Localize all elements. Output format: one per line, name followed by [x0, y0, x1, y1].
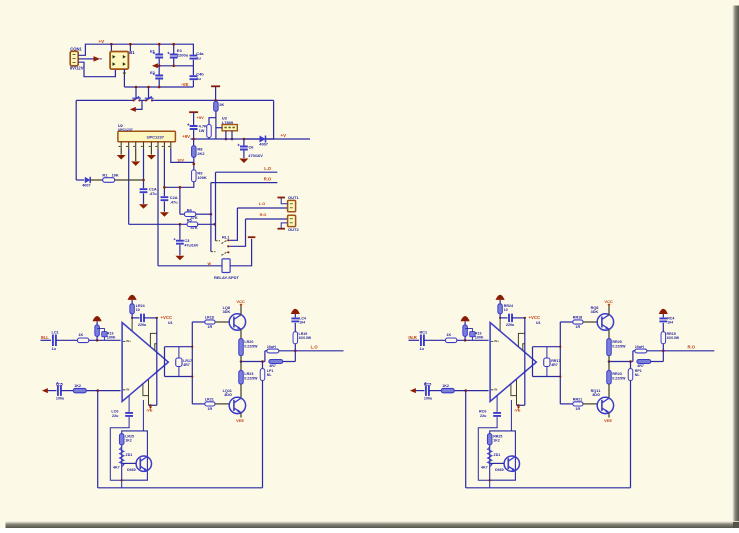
- connector OUT2: [288, 215, 296, 226]
- bias network box: [490, 431, 516, 480]
- capacitor RC2 bias small: [470, 332, 475, 337]
- svg-text:LC5: LC5: [56, 382, 63, 386]
- capacitor E1 column: [158, 44, 160, 53]
- wire R.O drop to relay: [210, 183, 212, 252]
- svg-text:U1: U1: [168, 321, 173, 325]
- svg-text:R1: R1: [102, 172, 108, 177]
- wire R5 to R.O drop: [198, 223, 215, 225]
- svg-text:104: 104: [667, 320, 673, 324]
- wire switch feed left vertical: [135, 87, 137, 98]
- bias transistor base wire: [490, 462, 504, 464]
- capacitor C4a column: [192, 44, 194, 54]
- wire bus corner down x=273.6: [274, 100, 310, 139]
- ground below C2A: [160, 212, 169, 217]
- svg-text:ZD1: ZD1: [126, 453, 133, 457]
- power dome above bias resistor: [464, 321, 466, 325]
- wire main rail y=100 left run: [76, 99, 128, 101]
- resistor RR17 bracket 4R7: [546, 347, 548, 358]
- svg-text:VCC: VCC: [236, 299, 245, 304]
- resistor R7 4K7 parallel: [209, 118, 216, 125]
- svg-text:D669: D669: [127, 468, 136, 472]
- svg-text:R5: R5: [187, 218, 193, 223]
- wire emitter resistor to output node: [240, 356, 242, 362]
- capacitor C5 column: [190, 126, 198, 129]
- resistor RR13 bias 100K: [463, 325, 468, 336]
- wire R6 bottom to +9V rail: [215, 111, 217, 139]
- capacitor C4b column: [192, 66, 194, 75]
- resistor LR12 1K2: [73, 388, 86, 392]
- svg-text:0.22/5W: 0.22/5W: [244, 376, 258, 380]
- feedback bottom run: [97, 391, 99, 488]
- ground pin3: [135, 149, 137, 161]
- op-amp aux pin jog 2: [523, 344, 525, 351]
- resistor LR13 bias 100K: [95, 325, 100, 336]
- svg-text:UPC1237: UPC1237: [118, 128, 133, 132]
- connector CON1 (power input): [70, 51, 78, 66]
- resistor LR19 10/0.5W column: [293, 332, 298, 344]
- svg-text:100K: 100K: [197, 175, 206, 180]
- capacitor RC7 supply bypass: [500, 317, 507, 319]
- wire bridge + output up to bus: [129, 44, 131, 51]
- junction R6 top: [214, 99, 217, 102]
- resistor R4 47K: [180, 213, 185, 215]
- supply rail vertical to V- node: [156, 318, 158, 405]
- preset RRP1 zigzag: [488, 447, 492, 467]
- svg-text:100u: 100u: [56, 396, 65, 400]
- relay coil RL1: [158, 265, 222, 267]
- inductor LL1 parallel branch: [264, 351, 266, 362]
- svg-text:IN.L: IN.L: [41, 335, 49, 340]
- wire U3 pins to +9V rail: [225, 131, 227, 139]
- wire R4 to L.O drop: [196, 213, 211, 215]
- V- node wire: [149, 404, 157, 406]
- svg-text:VEE: VEE: [236, 418, 244, 423]
- op-amp aux pin jog 2: [155, 344, 157, 351]
- svg-text:OUT2: OUT2: [288, 227, 299, 232]
- svg-text:220u: 220u: [138, 323, 147, 327]
- resistor R5 47K: [129, 223, 187, 225]
- net stub output L.O: [295, 350, 343, 352]
- capacitor LC2 bias small: [102, 332, 107, 337]
- svg-text:-VE: -VE: [181, 82, 189, 87]
- resistor R1 10K: [103, 178, 115, 183]
- drop shadow bottom edge: [6, 521, 739, 528]
- svg-text:RC1: RC1: [420, 331, 428, 335]
- resistor RR20 emitter 0.22/5W: [608, 329, 610, 339]
- svg-text:IN+: IN+: [494, 339, 499, 343]
- svg-text:RR20: RR20: [612, 340, 621, 344]
- wire left drop to preamp feed: [75, 100, 77, 180]
- net label -VE: [517, 407, 520, 410]
- svg-text:R.O: R.O: [260, 213, 267, 217]
- svg-text:0.22/5W: 0.22/5W: [244, 344, 258, 348]
- svg-text:RELAY-SPDT: RELAY-SPDT: [214, 275, 240, 280]
- resistor LR18 top base 1R: [192, 321, 205, 323]
- svg-text:1K2: 1K2: [125, 439, 132, 443]
- wire switch feed right vertical: [148, 87, 150, 98]
- svg-text:1R: 1R: [207, 325, 212, 329]
- svg-text:U1: U1: [536, 321, 541, 325]
- wire pin4 drop to C1A: [143, 149, 145, 188]
- wire to top transistor base: [583, 321, 597, 323]
- svg-text:-VE: -VE: [146, 408, 153, 413]
- resistor RR12 1K2: [441, 388, 454, 392]
- wire to bottom transistor base: [583, 403, 597, 405]
- regulator U3 78L09: [222, 125, 237, 131]
- switch SW2: [140, 99, 147, 101]
- feedback bottom run: [465, 391, 467, 488]
- resistor LR26 parallel branch: [269, 360, 283, 364]
- IC pins: [120, 142, 122, 149]
- svg-text:10: 10: [136, 308, 140, 312]
- drop shadow right edge: [732, 6, 739, 529]
- svg-text:3DG: 3DG: [592, 393, 600, 397]
- wire relay NO1 to OUT1: [230, 208, 238, 240]
- svg-text:10V: 10V: [177, 159, 184, 163]
- ground below C3: [175, 256, 184, 260]
- diode D2 line to +V stub: [244, 138, 274, 140]
- svg-text:.47u: .47u: [149, 191, 157, 196]
- wire +9V rail: [191, 138, 274, 140]
- capacitor E3 column: [173, 44, 175, 53]
- svg-text:0.22/5W: 0.22/5W: [612, 376, 626, 380]
- bridge rectifier B1: [110, 52, 128, 70]
- net label -VE: [149, 407, 152, 410]
- svg-text:100K: 100K: [107, 336, 116, 340]
- power dome above zobel: [659, 309, 668, 314]
- op-amp LU1 triangle: [122, 323, 168, 402]
- inductor RL1 parallel branch: [632, 351, 634, 362]
- svg-text:1R: 1R: [575, 407, 580, 411]
- svg-text:RL1: RL1: [222, 234, 230, 239]
- svg-text:4K7: 4K7: [481, 466, 488, 470]
- bias network box: [122, 431, 148, 480]
- svg-text:4R7: 4R7: [637, 364, 644, 368]
- op-amp lower pin drop 1: [143, 384, 149, 395]
- svg-text:3DK: 3DK: [223, 310, 231, 314]
- svg-text:OUT1: OUT1: [288, 195, 299, 200]
- svg-text:IN.R: IN.R: [408, 335, 416, 340]
- driver rail vertical: [191, 322, 193, 404]
- resistor LR25 in box: [119, 434, 124, 445]
- wire to IN- pin: [454, 390, 488, 392]
- resistor RR18 top base 1R: [560, 321, 573, 323]
- wire coil to power bar: [230, 239, 252, 266]
- wire R9 bottom jog to C2A node: [164, 182, 193, 188]
- resistor LR20 emitter 0.22/5W: [240, 329, 242, 339]
- V+ pin resistor column: [131, 318, 133, 331]
- svg-text:LR23: LR23: [244, 372, 253, 376]
- svg-text:1K: 1K: [78, 333, 83, 337]
- svg-text:E1: E1: [150, 49, 156, 54]
- wire bridge - output down to bottom bus: [123, 69, 125, 87]
- capacitor RC1 input 1u: [421, 335, 424, 347]
- emitter wire to VEE: [240, 413, 242, 418]
- svg-text:4R7: 4R7: [551, 363, 558, 367]
- connector OUT1: [288, 200, 296, 211]
- wire top bus +VE: [111, 43, 194, 45]
- wire to IN- pin: [86, 390, 120, 392]
- svg-text:100K: 100K: [475, 336, 484, 340]
- ground below C1A: [139, 204, 148, 209]
- wire input cap to RR11: [424, 339, 446, 341]
- net stub output R.O: [663, 350, 714, 352]
- svg-text:L.O: L.O: [264, 166, 272, 171]
- diode D1: [85, 177, 90, 183]
- V+ pin resistor column: [499, 318, 501, 331]
- bias transistor base wire: [122, 462, 136, 464]
- net stub L.O top: [216, 171, 278, 173]
- capacitor C2A: [161, 197, 169, 200]
- net stub input minus IN.R2: [410, 388, 416, 393]
- wire bottom bus -VE: [124, 86, 193, 88]
- svg-text:D669: D669: [495, 468, 504, 472]
- capacitor LC1 input 1u: [53, 335, 56, 347]
- power bar above coil: [248, 236, 256, 238]
- resistor R8 2K2: [193, 139, 195, 146]
- wire L.O drop to relay: [215, 172, 217, 241]
- wire to top transistor base: [215, 321, 229, 323]
- svg-text:L.O: L.O: [259, 202, 265, 206]
- ground arrow on mid rail: [152, 63, 158, 68]
- capacitor LC6 22u feedback: [128, 396, 130, 412]
- wire to bottom transistor base: [215, 403, 229, 405]
- junction top bus to bridge: [110, 43, 113, 46]
- svg-text:2K: 2K: [219, 102, 224, 107]
- wire input cap to LR11: [56, 339, 78, 341]
- output line to zobel: [609, 361, 633, 363]
- feedback resistor LP1: [262, 362, 264, 369]
- resistor RR23 emitter 0.22/5W: [608, 362, 610, 371]
- wire to bottom transistor collector: [608, 384, 610, 398]
- svg-text:1W: 1W: [199, 128, 205, 133]
- svg-text:10uH: 10uH: [635, 345, 644, 349]
- svg-text:+9V: +9V: [197, 115, 205, 120]
- svg-text:1u: 1u: [420, 347, 425, 351]
- svg-text:3DK: 3DK: [591, 310, 599, 314]
- output bracket left vertical: [164, 347, 166, 377]
- svg-text:1R: 1R: [575, 325, 580, 329]
- svg-text:4R7: 4R7: [269, 364, 276, 368]
- resistor LR21 bottom base 1R: [192, 403, 205, 405]
- output line to zobel: [241, 361, 265, 363]
- feedback vertical to bottom run: [630, 381, 632, 488]
- svg-text:ZD1: ZD1: [494, 453, 501, 457]
- svg-text:1R: 1R: [207, 407, 212, 411]
- svg-text:R4: R4: [187, 207, 193, 212]
- diode D2 4007: [260, 136, 266, 143]
- emitter wire to VEE: [608, 413, 610, 418]
- transistor LQ13 bias: [136, 456, 151, 471]
- transistor RQ8 top NPN: [597, 314, 613, 330]
- svg-text:NL: NL: [267, 373, 273, 377]
- capacitor C1A: [140, 189, 148, 192]
- svg-text:RR21: RR21: [573, 398, 582, 402]
- resistor RR11 1K: [446, 338, 457, 343]
- ground below C6: [239, 159, 248, 164]
- transistor RQ13 bias: [504, 456, 519, 471]
- wire pin6 drop to relay coil line: [157, 149, 159, 266]
- svg-text:IN: IN: [126, 387, 129, 391]
- svg-text:VCC: VCC: [604, 299, 613, 304]
- capacitor RC5 100u input minus: [426, 385, 429, 396]
- wire R1 to pin4 node: [115, 179, 144, 181]
- svg-text:+VCC: +VCC: [161, 315, 173, 320]
- resistor RR25 in box: [487, 434, 492, 445]
- svg-text:LR21: LR21: [205, 398, 214, 402]
- svg-text:4007: 4007: [82, 183, 90, 187]
- wire to bottom transistor collector: [240, 384, 242, 398]
- svg-text:2K2: 2K2: [197, 151, 205, 156]
- svg-text:1u: 1u: [196, 56, 201, 61]
- transistor LQ11 bottom PNP: [229, 397, 245, 413]
- resistor RR21 bottom base 1R: [560, 403, 573, 405]
- wire mid rail: [157, 65, 194, 67]
- op-amp RU1 triangle: [490, 323, 536, 402]
- wire main rail y=100 right run: [152, 99, 274, 101]
- wire pin2 long drop: [128, 149, 130, 224]
- net stub input minus IN.L2: [42, 388, 48, 393]
- svg-text:-VE: -VE: [514, 408, 521, 413]
- svg-text:10K: 10K: [112, 172, 119, 177]
- svg-text:LC6: LC6: [111, 409, 118, 413]
- svg-text:C3: C3: [184, 238, 190, 243]
- svg-text:10/0.5W: 10/0.5W: [299, 336, 312, 340]
- wire pin8 jog to R8/R9 node: [171, 149, 194, 162]
- wire 22u node down to box: [142, 400, 144, 431]
- wire OUT1 line: [237, 207, 287, 209]
- svg-text:3DG: 3DG: [224, 393, 232, 397]
- output bracket top: [533, 346, 561, 348]
- supply rail vertical to V- node: [524, 318, 526, 405]
- capacitor LC4 104 column: [294, 323, 296, 332]
- svg-text:10uH: 10uH: [267, 345, 276, 349]
- input arrow on CON1 pin2: [94, 56, 101, 62]
- transistor LQ8 top NPN: [229, 314, 245, 330]
- power dome above zobel: [291, 309, 300, 314]
- resistor RR26 parallel branch: [637, 360, 651, 364]
- capacitor C6 470u/16V: [243, 139, 245, 146]
- preset LRP1 zigzag: [120, 447, 124, 467]
- svg-text:CON1: CON1: [70, 46, 82, 51]
- feedback resistor RP1: [630, 362, 632, 369]
- diode D1 input line: [76, 179, 84, 181]
- op-amp aux pin jog 1: [518, 333, 524, 346]
- ground stub between switches: [136, 100, 143, 109]
- svg-text:UPC1237: UPC1237: [147, 135, 165, 140]
- svg-text:1K2: 1K2: [74, 384, 81, 388]
- wire R8 to R9 junction: [193, 157, 195, 170]
- svg-text:47u/16V: 47u/16V: [184, 244, 198, 248]
- wire relay NO2 to OUT2: [230, 219, 246, 246]
- svg-text:1u: 1u: [196, 76, 201, 81]
- svg-text:LR18: LR18: [205, 315, 214, 319]
- op-amp lower pin drop 2: [148, 380, 150, 406]
- capacitor RC4 104 column: [662, 323, 664, 332]
- output bracket bottom: [165, 376, 193, 378]
- power bar at OUT1: [277, 197, 285, 199]
- svg-text:220u: 220u: [506, 323, 515, 327]
- svg-text:NL: NL: [635, 373, 641, 377]
- svg-text:9V/12V: 9V/12V: [70, 65, 84, 70]
- junction diode line: [243, 138, 246, 141]
- wire pin7 drop to C2A: [163, 149, 165, 196]
- svg-text:+V: +V: [281, 133, 287, 138]
- svg-text:LC1: LC1: [52, 331, 59, 335]
- wire OUT2 line: [246, 218, 288, 220]
- transistor RQ11 bottom PNP: [597, 397, 613, 413]
- svg-text:10: 10: [504, 308, 508, 312]
- svg-text:E2: E2: [150, 70, 156, 75]
- svg-text:1u: 1u: [52, 347, 57, 351]
- svg-text:22u: 22u: [112, 414, 119, 418]
- collector wire to VCC: [240, 305, 242, 315]
- svg-text:L7809: L7809: [222, 120, 234, 125]
- wire to RR12: [429, 390, 441, 392]
- svg-text:104: 104: [299, 320, 305, 324]
- svg-text:IN: IN: [494, 387, 497, 391]
- svg-text:L.O: L.O: [311, 345, 319, 350]
- feedback vertical to bottom run: [262, 381, 264, 488]
- output bracket top: [165, 346, 193, 348]
- wire R4 feed from C2A node: [179, 187, 181, 214]
- switch SW1: [128, 99, 134, 101]
- capacitor LC7 supply bypass: [132, 317, 139, 319]
- svg-text:1K: 1K: [446, 333, 451, 337]
- resistor R6: [214, 102, 219, 112]
- power bar at OUT2 below: [277, 228, 285, 230]
- resistor R9 100K: [192, 170, 197, 182]
- resistor RR19 10/0.5W column: [661, 332, 666, 344]
- svg-text:RC6: RC6: [479, 409, 486, 413]
- capacitor C3 47u/16V: [179, 224, 181, 239]
- power bar column x=193.6: [189, 111, 198, 113]
- wire emitter resistor to output node: [608, 356, 610, 362]
- wire 22u node down to box: [510, 400, 512, 431]
- svg-text:W: W: [208, 262, 212, 266]
- svg-text:R.O: R.O: [264, 176, 272, 181]
- svg-text:4K7: 4K7: [113, 466, 120, 470]
- svg-text:LR20: LR20: [244, 340, 253, 344]
- capacitor E2 column: [158, 66, 160, 75]
- svg-text:R.O: R.O: [688, 345, 696, 350]
- op-amp lower pin drop 1: [511, 384, 517, 395]
- IC U2 uPC1237: [118, 131, 175, 142]
- svg-text:470/16V: 470/16V: [248, 153, 263, 158]
- ground pin5: [150, 149, 152, 155]
- svg-text:+V: +V: [99, 39, 105, 44]
- svg-text:0.22/5W: 0.22/5W: [612, 344, 626, 348]
- svg-text:IN+: IN+: [126, 339, 131, 343]
- svg-text:47K: 47K: [191, 225, 198, 230]
- svg-text:.47u: .47u: [170, 199, 178, 204]
- svg-text:+VCC: +VCC: [529, 315, 541, 320]
- capacitor LC5 100u input minus: [58, 385, 61, 396]
- ground pin1: [120, 149, 122, 155]
- wire to bias junction: [457, 339, 489, 341]
- output bracket left vertical: [532, 347, 534, 377]
- net stub R.O top: [211, 182, 277, 184]
- svg-text:+9V: +9V: [182, 134, 190, 139]
- svg-text:C6: C6: [249, 145, 255, 150]
- svg-text:10/0.5W: 10/0.5W: [667, 336, 680, 340]
- ground arrow between switches: [130, 107, 136, 112]
- svg-text:RC5: RC5: [424, 382, 431, 386]
- collector wire to VCC: [608, 305, 610, 315]
- op-amp aux pin jog 1: [150, 333, 156, 346]
- svg-text:RR18: RR18: [573, 315, 582, 319]
- svg-text:1K2: 1K2: [442, 384, 449, 388]
